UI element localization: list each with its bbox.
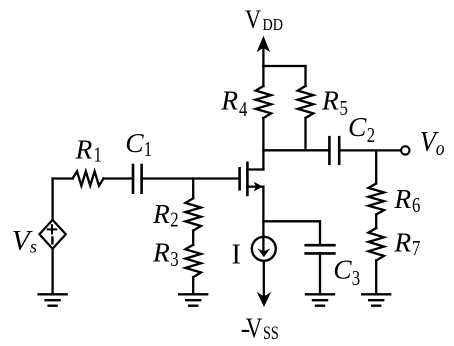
resistor R1 [73, 171, 104, 185]
svg-text:I: I [232, 239, 241, 270]
current source I circle [252, 237, 276, 261]
svg-text:C: C [348, 111, 367, 142]
resistor R7 [368, 228, 384, 261]
svg-text:4: 4 [239, 97, 248, 121]
svg-text:C: C [333, 254, 352, 285]
node -VSS arrow [257, 292, 272, 307]
wire R6-R7 [375, 215, 377, 229]
svg-text:R: R [321, 84, 339, 115]
wire R7 to ground [375, 261, 377, 295]
capacitor C3 [306, 245, 335, 253]
svg-text:V: V [246, 312, 263, 344]
transistor Q1 gate bar [238, 168, 241, 189]
svg-text:C: C [125, 127, 144, 158]
wire source down [262, 187, 264, 250]
wire source branch to C3 [263, 220, 320, 222]
svg-text:s: s [30, 237, 37, 257]
wire C3 top lead [319, 221, 321, 245]
wire R5 bottom lead [304, 118, 306, 150]
ground under R7 [362, 294, 390, 305]
svg-text:R: R [393, 183, 411, 214]
wire R4 bottom to drain [262, 118, 264, 170]
resistor R2 [185, 198, 201, 230]
resistor R3 [185, 245, 201, 277]
resistor R5 [298, 86, 314, 118]
transistor Q1 source lead with arrow [247, 182, 263, 192]
plus sign [48, 225, 56, 233]
wire R2-R3 [192, 231, 194, 245]
svg-text:R: R [393, 226, 411, 257]
wire C1 to gate [142, 177, 240, 179]
svg-text:o: o [436, 138, 445, 160]
resistor R6 [368, 184, 384, 215]
transistor Q1 drain lead [247, 168, 263, 170]
wire Vs bottom lead [51, 249, 53, 295]
svg-text:V: V [245, 4, 261, 34]
transistor Q1 channel bar [246, 163, 249, 195]
svg-text:R: R [152, 198, 170, 229]
svg-text:SS: SS [263, 323, 279, 344]
svg-text:5: 5 [340, 96, 348, 120]
node VDD arrow [257, 36, 271, 66]
wire R4 top lead [262, 66, 264, 86]
wire input left [53, 177, 73, 179]
wire R3 to ground [192, 277, 194, 294]
wire C2 to output [339, 149, 401, 151]
svg-text:6: 6 [412, 193, 420, 217]
resistor R4 [256, 86, 272, 118]
source Vs diamond [39, 220, 65, 249]
svg-text:3: 3 [170, 247, 178, 271]
wire drain rail [263, 149, 329, 151]
capacitor C1 [133, 165, 142, 193]
wire R1 to C1 [104, 177, 134, 179]
svg-text:DD: DD [263, 15, 284, 34]
svg-text:3: 3 [352, 266, 360, 290]
svg-text:R: R [75, 133, 93, 164]
ground under R3 [179, 294, 207, 305]
wire top rail [263, 65, 305, 67]
svg-text:2: 2 [170, 208, 178, 232]
wire C3 bottom lead [319, 253, 321, 294]
svg-text:1: 1 [94, 142, 102, 166]
svg-text:R: R [220, 84, 238, 115]
capacitor C2 [329, 137, 339, 164]
wire R2 top lead [192, 179, 194, 199]
node Vo terminal [401, 146, 409, 154]
svg-text:7: 7 [412, 236, 420, 260]
svg-text:R: R [152, 237, 170, 268]
svg-text:1: 1 [144, 137, 152, 161]
wire R5 top lead [304, 66, 306, 86]
minus sign [51, 238, 53, 244]
svg-text:2: 2 [367, 123, 375, 147]
wire below current source [263, 261, 265, 298]
current source inner arrow [257, 248, 270, 257]
wire Vs top lead [51, 179, 53, 220]
wire R6 top lead [375, 150, 377, 183]
ground under C3 [306, 294, 334, 305]
ground under Vs [39, 294, 67, 305]
